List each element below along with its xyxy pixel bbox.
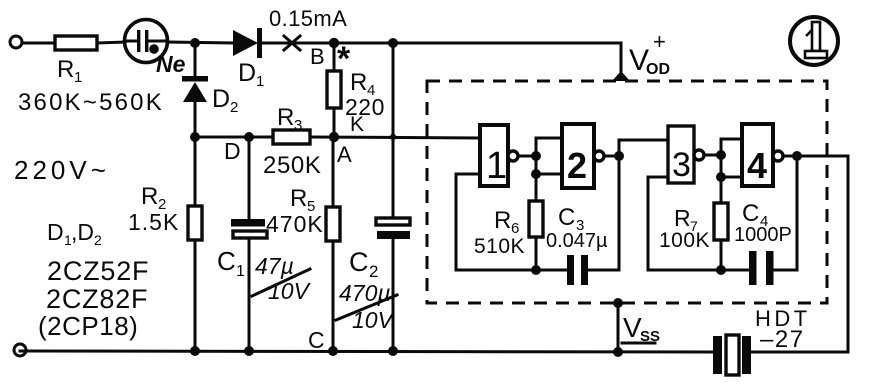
label R7 (674, 205, 698, 234)
crossing blob (390, 134, 396, 140)
figure number 1 circled (790, 17, 838, 65)
wire bottom right to buzzer (751, 351, 848, 354)
resistor R2 (188, 137, 202, 351)
svg-text:10V: 10V (352, 307, 396, 333)
resistor R6 (529, 201, 543, 270)
node gate1 out (531, 151, 541, 161)
wire to gate3 (619, 140, 668, 156)
bubble gate 2 (594, 151, 604, 161)
label K (350, 113, 364, 136)
gate U2 inverter 2 (562, 124, 594, 188)
svg-text:1: 1 (236, 263, 245, 280)
node gate2 out (614, 151, 624, 161)
node junction (531, 169, 541, 179)
capacitor C2 (376, 218, 410, 239)
svg-text:C: C (217, 246, 236, 276)
resistor R5 (326, 137, 340, 351)
svg-text:2: 2 (369, 262, 378, 281)
wire (262, 42, 330, 45)
label 1000P (734, 224, 792, 246)
node junction (716, 172, 726, 182)
svg-text:2: 2 (567, 145, 587, 186)
label C4 (742, 200, 768, 230)
svg-text:C: C (742, 200, 759, 227)
wire (22, 42, 55, 45)
svg-text:1000P: 1000P (734, 224, 792, 246)
bottom rail VSS (20, 351, 713, 352)
svg-text:B: B (310, 44, 325, 69)
node junction D2 top (190, 38, 200, 48)
label R3 (277, 104, 302, 134)
label 220 (345, 94, 385, 120)
node junction C1 top (244, 132, 254, 142)
wire gate1 out (518, 155, 536, 158)
svg-text:D: D (224, 138, 241, 164)
svg-text:3: 3 (672, 146, 691, 184)
resistor R3 (273, 130, 310, 144)
svg-text:470K: 470K (266, 211, 324, 237)
label HDT-27 (755, 306, 811, 353)
label B (310, 44, 325, 69)
label D1 (238, 59, 264, 90)
wire riser gate2 in (536, 138, 562, 201)
svg-text:A: A (337, 142, 352, 167)
star mark (337, 40, 351, 78)
svg-text:,D: ,D (71, 219, 94, 245)
diode D1 (233, 28, 262, 58)
wire gate4 out to right (783, 155, 848, 158)
svg-text:1: 1 (256, 73, 264, 90)
gate 1 feedback stub (456, 174, 480, 270)
label R2 (141, 183, 166, 213)
node R6 bottom (531, 265, 541, 275)
svg-text:4: 4 (747, 145, 767, 186)
label R6 (494, 207, 519, 237)
svg-text:R: R (57, 56, 74, 83)
resistor R7 (714, 203, 728, 270)
resistor R1 (55, 36, 97, 50)
label 47u/10V (252, 253, 312, 304)
wire output right side down (847, 156, 850, 352)
wire (97, 42, 125, 43)
svg-text:Ne: Ne (156, 51, 186, 77)
svg-text:+: + (653, 29, 666, 54)
node gate4 out (792, 151, 802, 161)
svg-text:R: R (141, 183, 158, 210)
node D junction (190, 132, 200, 142)
junction dots bottom rail (190, 346, 623, 357)
svg-text:220V~: 220V~ (14, 155, 110, 185)
label 1.5K (128, 209, 179, 235)
svg-text:3: 3 (294, 117, 302, 134)
dashed IC boundary box (427, 81, 827, 303)
svg-text:R: R (674, 205, 691, 231)
label VDD+ (629, 29, 670, 78)
svg-text:(2CP18): (2CP18) (38, 311, 138, 341)
svg-text:0.047µ: 0.047µ (546, 230, 608, 252)
node B junction (329, 38, 339, 48)
VSS tap from box (613, 298, 623, 352)
svg-text:1: 1 (486, 145, 507, 187)
label 0.15mA (269, 6, 347, 31)
svg-text:1.5K: 1.5K (128, 209, 179, 235)
node C label (308, 327, 325, 353)
label D (224, 138, 241, 164)
label C3 (558, 204, 584, 234)
capacitor C3 (567, 156, 619, 285)
wire (167, 42, 233, 43)
bubble gate 3 (694, 150, 704, 160)
svg-text:D: D (238, 59, 256, 87)
node junction C2 top (388, 38, 398, 48)
label R1 value (57, 56, 82, 86)
node rail D-A (195, 136, 273, 139)
svg-text:100K: 100K (659, 229, 710, 252)
diode D2 (182, 43, 208, 137)
svg-text:510K: 510K (474, 235, 525, 258)
label D2 (212, 85, 238, 116)
input terminal top (10, 36, 22, 48)
wire top rail to VDD corner (334, 42, 621, 45)
labels diode types (38, 219, 149, 341)
svg-text:1: 1 (74, 69, 82, 86)
svg-text:C: C (308, 327, 325, 353)
test mark x 0.15mA (284, 36, 300, 50)
wire riser gate4 in (721, 139, 742, 203)
label Ne (156, 51, 186, 77)
svg-text:0.15mA: 0.15mA (269, 6, 347, 31)
piezo buzzer HDT-27 (713, 335, 751, 375)
wire node A rail to gate 1 (310, 137, 480, 138)
svg-text:2: 2 (94, 232, 102, 248)
loop bottom osc2 (648, 269, 749, 272)
svg-text:47µ: 47µ (255, 253, 294, 279)
svg-text:C: C (558, 204, 575, 231)
label C1 (217, 246, 245, 280)
gate 3 feedback stub (648, 177, 668, 270)
label 250K (263, 152, 321, 179)
label 470K (266, 211, 324, 237)
svg-text:D: D (47, 219, 64, 245)
wire VDD drop (620, 43, 623, 74)
svg-text:OD: OD (646, 61, 670, 78)
loop bottom osc1 (456, 269, 567, 272)
label 220V~ (14, 155, 110, 185)
svg-text:K: K (350, 113, 364, 136)
svg-text:10V: 10V (268, 278, 312, 304)
bubble gate 1 (508, 151, 518, 161)
svg-text:–27: –27 (760, 326, 805, 353)
input terminal bottom (14, 344, 26, 356)
svg-text:C: C (349, 247, 369, 277)
svg-text:R: R (290, 185, 307, 212)
svg-text:360K~560K: 360K~560K (18, 89, 164, 116)
svg-text:250K: 250K (263, 152, 321, 179)
node R7 bottom (716, 265, 726, 275)
label 510K (474, 235, 525, 258)
svg-text:R: R (277, 104, 294, 131)
neon lamp Ne (125, 20, 168, 63)
svg-text:2CZ82F: 2CZ82F (46, 284, 148, 314)
label R4 (350, 69, 375, 99)
label 100K (659, 229, 710, 252)
label 0.047u (546, 230, 608, 252)
gate U1 inverter 1 (480, 125, 508, 187)
supply branch wire C2 (392, 43, 395, 351)
svg-text:R: R (494, 207, 511, 234)
svg-text:R: R (350, 69, 367, 96)
wire gate2 out (604, 155, 619, 158)
svg-text:D: D (212, 85, 230, 113)
label 360K-560K (18, 89, 164, 116)
svg-text:2CZ52F: 2CZ52F (47, 256, 149, 286)
node A junction (329, 132, 339, 142)
bubble gate 4 (773, 151, 783, 161)
label R5 (290, 185, 315, 215)
label C2 (349, 247, 378, 281)
gate U4 inverter 4 (742, 124, 773, 186)
label 470u/10V (336, 280, 397, 333)
capacitor C1 (231, 137, 267, 351)
VDD arrow to box (612, 71, 630, 81)
resistor R4 (327, 43, 341, 137)
node gate3 out (716, 150, 726, 160)
wire gate3 out (704, 154, 721, 157)
svg-text:2: 2 (230, 99, 238, 116)
label A (337, 142, 352, 167)
capacitor C4 (749, 156, 797, 285)
gate U3 inverter 3 (668, 126, 694, 184)
label VSS (622, 312, 660, 345)
